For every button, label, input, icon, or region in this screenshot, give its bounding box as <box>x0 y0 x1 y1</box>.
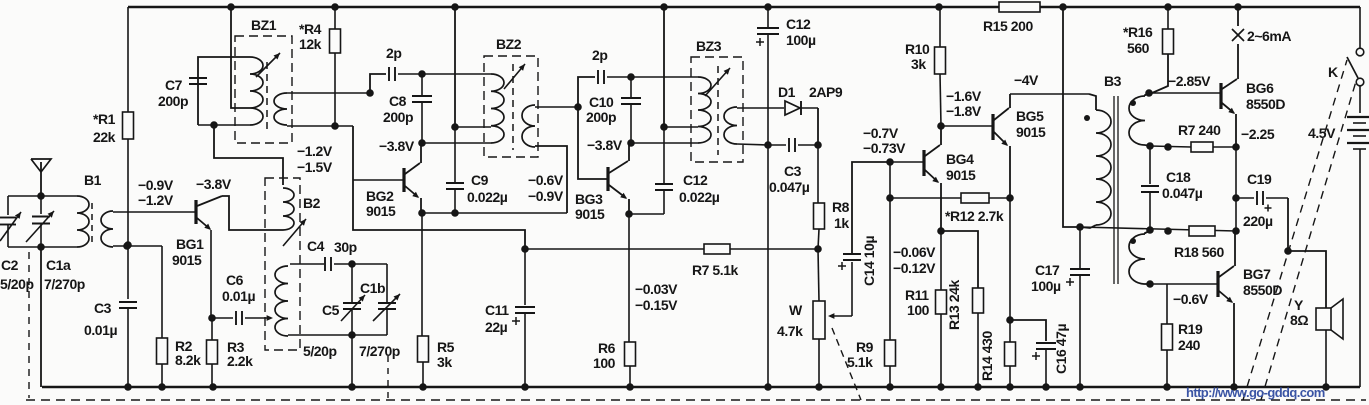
BZ3 slug arrow <box>705 68 730 96</box>
svg-text:C16 47µ: C16 47µ <box>1053 324 1069 374</box>
svg-text:30p: 30p <box>334 239 357 255</box>
capacitor C9 0.022u <box>454 127 456 183</box>
node <box>37 243 45 251</box>
transformer B2 box <box>265 178 300 350</box>
wire rail feed <box>663 7 665 127</box>
capacitor C14 10u electrolytic <box>851 262 853 316</box>
svg-text:200p: 200p <box>383 109 413 125</box>
svg-text:C11: C11 <box>485 302 509 318</box>
node emitter <box>937 227 945 235</box>
capacitor C6 0.01u <box>212 317 233 319</box>
node <box>814 245 822 253</box>
svg-text:C14 10µ: C14 10µ <box>861 236 877 286</box>
transformer BZ3 secondary <box>724 107 737 144</box>
wire tap <box>455 126 491 128</box>
svg-text:BG4: BG4 <box>946 151 974 167</box>
resistor R11 100 <box>940 231 942 290</box>
bottom dashed border <box>26 399 1366 401</box>
wire rail feed <box>454 7 456 127</box>
top supply rail <box>128 6 1360 8</box>
svg-text:B2: B2 <box>303 195 321 211</box>
svg-text:R13 24k: R13 24k <box>946 280 962 330</box>
battery 4.5V <box>1359 86 1361 113</box>
wire collector <box>222 196 283 230</box>
BZ1 slug arrow <box>256 53 280 77</box>
svg-text:B3: B3 <box>1104 73 1122 89</box>
svg-text:C10: C10 <box>589 94 614 110</box>
wire <box>422 73 491 75</box>
switch dashed link <box>1243 60 1347 400</box>
node emitter <box>208 314 216 322</box>
svg-text:−2.25: −2.25 <box>1241 126 1275 142</box>
node <box>451 209 459 217</box>
node <box>210 121 218 129</box>
svg-text:3k: 3k <box>911 56 926 72</box>
wire secondary top <box>535 106 578 108</box>
capacitor C10 200p <box>630 77 632 98</box>
node <box>37 192 45 200</box>
svg-text:12k: 12k <box>299 36 322 52</box>
transformer BZ2 secondary <box>522 105 535 147</box>
svg-text:C17: C17 <box>1035 262 1060 278</box>
potentiometer W 4.7k <box>818 249 819 301</box>
node <box>1146 280 1154 288</box>
transformer BZ1 primary <box>250 57 263 125</box>
svg-text:C5: C5 <box>322 302 340 318</box>
wire <box>352 263 387 265</box>
svg-text:D1: D1 <box>778 84 796 100</box>
svg-text:R15 200: R15 200 <box>983 18 1033 34</box>
wire <box>127 7 129 112</box>
node <box>521 245 529 253</box>
wire secondary bottom <box>287 125 353 127</box>
svg-text:C2: C2 <box>1 257 19 273</box>
svg-text:2.2k: 2.2k <box>227 353 253 369</box>
node rail <box>227 3 235 11</box>
svg-text:7/270p: 7/270p <box>359 343 400 359</box>
svg-text:R5: R5 <box>437 339 455 355</box>
wire tank top <box>8 195 77 197</box>
wire collector to primary <box>631 142 698 144</box>
diode D1 2AP9 <box>785 101 800 115</box>
node <box>418 70 426 78</box>
transformer BZ1 core <box>266 62 268 132</box>
svg-text:100: 100 <box>907 302 930 318</box>
node collector <box>937 122 945 130</box>
wire secondary bottom <box>535 146 567 213</box>
wire <box>127 139 129 299</box>
svg-text:0.01µ: 0.01µ <box>222 288 255 304</box>
svg-text:R11: R11 <box>905 287 929 303</box>
resistor R18 560 <box>1164 227 1172 235</box>
resistor R6 100 <box>628 214 630 342</box>
wire base tap <box>353 179 404 181</box>
transistor BG7 8550D <box>1216 271 1219 297</box>
resistor R2 8.2k <box>157 338 168 364</box>
node emitter BG6 <box>1232 143 1240 151</box>
svg-text:200p: 200p <box>158 93 188 109</box>
svg-text:*R1: *R1 <box>93 111 116 127</box>
wire tank bottom <box>8 246 77 248</box>
wire rail feed <box>1063 7 1080 227</box>
svg-text:C8: C8 <box>389 93 407 109</box>
svg-text:0.022µ: 0.022µ <box>679 189 720 205</box>
wire rail feed <box>231 7 250 108</box>
svg-text:−0.15V: −0.15V <box>635 297 678 313</box>
wire to ground <box>40 247 42 387</box>
svg-text:C12: C12 <box>683 172 708 188</box>
wire base BG6 <box>1149 92 1221 94</box>
svg-text:B1: B1 <box>84 172 102 188</box>
node <box>1145 89 1153 97</box>
junction <box>124 383 132 391</box>
capacitor C11 22u electrolytic <box>524 249 526 305</box>
svg-text:560: 560 <box>1127 40 1150 56</box>
node emitter <box>1006 194 1014 202</box>
svg-text:200p: 200p <box>586 109 616 125</box>
svg-text:9015: 9015 <box>1016 124 1046 140</box>
phase dot <box>1130 100 1136 106</box>
wire <box>817 108 819 145</box>
wire <box>351 335 353 387</box>
svg-text:BZ2: BZ2 <box>496 36 522 52</box>
variable capacitor C1a 7/270p <box>40 196 42 214</box>
node <box>348 331 356 339</box>
wire <box>288 334 387 336</box>
svg-text:C7: C7 <box>165 77 183 93</box>
wire <box>198 124 250 126</box>
capacitor C3 0.047u <box>768 144 786 146</box>
capacitor 2p <box>578 77 595 107</box>
wire <box>127 308 129 387</box>
node <box>451 123 459 131</box>
transformer B1 core <box>91 203 93 243</box>
svg-text:C1b: C1b <box>360 280 385 296</box>
wiper arrow <box>830 315 852 317</box>
resistor R3 2.2k <box>211 318 213 340</box>
wire <box>1287 198 1289 251</box>
resistor R7 5.1k <box>704 244 730 254</box>
BZ2 slug arrow <box>504 64 525 89</box>
B2 slug arrow <box>283 219 306 246</box>
node emitter <box>625 210 633 218</box>
wire output column <box>1235 147 1237 231</box>
switch K <box>1359 7 1361 48</box>
capacitor C4 30p <box>324 257 326 271</box>
svg-text:9015: 9015 <box>172 252 202 268</box>
svg-text:8.2k: 8.2k <box>175 352 201 368</box>
gang dashed link <box>387 356 389 398</box>
svg-text:R9: R9 <box>856 339 874 355</box>
svg-text:C9: C9 <box>471 172 489 188</box>
node <box>660 123 668 131</box>
transformer BZ1 secondary <box>274 93 287 125</box>
svg-text:3k: 3k <box>437 354 452 370</box>
trimmer C2 5/20p <box>7 196 9 215</box>
resistor R4 12k <box>331 3 339 11</box>
resistor R16 560 <box>1164 3 1172 11</box>
svg-text:4.7k: 4.7k <box>777 323 803 339</box>
svg-text:−1.6V: −1.6V <box>946 88 982 104</box>
svg-text:BG6: BG6 <box>1246 80 1274 96</box>
capacitor C19 220u electrolytic <box>1236 197 1254 199</box>
node collector BG2 <box>418 139 426 147</box>
svg-text:C3: C3 <box>94 300 112 316</box>
phase dot <box>1130 238 1136 244</box>
transformer B1 primary <box>77 196 89 247</box>
svg-text:−0.6V: −0.6V <box>1173 291 1209 307</box>
node collector BG3 <box>627 139 635 147</box>
node rail <box>660 3 668 11</box>
svg-text:−3.8V: −3.8V <box>196 176 232 192</box>
ground rail <box>42 386 1360 388</box>
svg-text:Y: Y <box>1294 297 1304 313</box>
capacitor C12 100u electrolytic <box>764 3 772 11</box>
wire <box>1009 198 1011 320</box>
transformer B3 secondary top <box>1145 93 1149 96</box>
wire base BG7 <box>1150 283 1218 285</box>
svg-text:−0.06V: −0.06V <box>893 244 936 260</box>
capacitor C7 200p <box>198 57 250 84</box>
svg-text:0.022µ: 0.022µ <box>467 189 508 205</box>
node base-bias junction <box>124 241 132 249</box>
svg-text:0.01µ: 0.01µ <box>84 322 117 338</box>
svg-text:−0.9V: −0.9V <box>138 177 174 193</box>
trimmer C5 5/20p <box>351 264 353 302</box>
transistor BG6 8550D <box>1219 83 1222 109</box>
transformer BZ3 primary <box>698 77 711 143</box>
svg-text:−3.8V: −3.8V <box>587 137 623 153</box>
wire emitter <box>210 230 212 318</box>
svg-text:R19: R19 <box>1178 321 1203 337</box>
svg-text:4.5V: 4.5V <box>1308 125 1336 141</box>
svg-text:−0.6V: −0.6V <box>528 172 564 188</box>
transformer BZ3 box <box>691 57 743 162</box>
capacitor C18 0.047u <box>1149 146 1151 184</box>
resistor R1 <box>123 112 134 139</box>
node <box>627 73 635 81</box>
svg-text:C6: C6 <box>226 272 244 288</box>
svg-text:0.047µ: 0.047µ <box>769 179 810 195</box>
svg-text:−4V: −4V <box>1014 72 1039 88</box>
capacitor C12 0.022u <box>663 127 665 184</box>
wire mid rail <box>1080 227 1236 231</box>
svg-text:8Ω: 8Ω <box>1290 312 1308 328</box>
wire base <box>113 211 196 213</box>
svg-text:−0.12V: −0.12V <box>893 260 936 276</box>
wire AGC/base branch <box>353 126 525 249</box>
node <box>886 194 894 202</box>
svg-text:100µ: 100µ <box>786 32 816 48</box>
svg-text:9015: 9015 <box>575 206 605 222</box>
wiper dashed link <box>832 328 861 400</box>
node <box>814 141 822 149</box>
variable capacitor C1b 7/270p <box>378 302 396 304</box>
capacitor C17 100u electrolytic <box>1079 227 1081 268</box>
svg-text:C1a: C1a <box>46 257 71 273</box>
transformer B2 tank winding <box>275 266 288 336</box>
node <box>1006 316 1014 324</box>
wire C4 lead <box>290 263 324 265</box>
svg-text:−0.7V: −0.7V <box>863 125 899 141</box>
transformer B3 primary <box>1089 94 1096 110</box>
resistor R8 1k <box>817 145 819 203</box>
svg-text:−0.73V: −0.73V <box>863 140 906 156</box>
svg-text:−0.03V: −0.03V <box>635 281 678 297</box>
svg-text:W: W <box>789 302 803 318</box>
svg-text:2~6mA: 2~6mA <box>1247 28 1291 44</box>
capacitor C8 200p <box>421 74 423 96</box>
svg-text:5/20p: 5/20p <box>303 343 337 359</box>
node <box>1146 226 1154 234</box>
wire BZ1 to B2 <box>214 125 283 185</box>
transformer BZ2 primary <box>491 74 504 143</box>
svg-text:−1.2V: −1.2V <box>297 143 333 159</box>
node emitter <box>418 209 426 217</box>
node <box>331 122 339 130</box>
wire <box>629 213 664 215</box>
svg-text:100µ: 100µ <box>1031 278 1061 294</box>
svg-text:http://www.go-gddq.com: http://www.go-gddq.com <box>1186 385 1325 400</box>
node <box>764 141 772 149</box>
node <box>1146 142 1154 150</box>
resistor R14 430 <box>1009 320 1011 342</box>
svg-text:2p: 2p <box>592 47 607 63</box>
svg-text:7/270p: 7/270p <box>44 276 85 292</box>
svg-text:1k: 1k <box>834 215 849 231</box>
transistor BG1 9015 <box>194 200 197 224</box>
node <box>574 103 582 111</box>
node <box>1076 223 1084 231</box>
node <box>1232 194 1240 202</box>
transistor BG3 9015 <box>606 167 609 191</box>
wire collector to primary <box>422 142 491 144</box>
svg-text:C4: C4 <box>307 238 325 254</box>
svg-text:−3.8V: −3.8V <box>379 138 415 154</box>
speaker Y 8ohm <box>1316 308 1331 330</box>
svg-text:R8: R8 <box>832 199 850 215</box>
node <box>366 89 374 97</box>
svg-text:−2.85V: −2.85V <box>1168 73 1211 89</box>
resistor R9 5.1k <box>889 162 891 340</box>
svg-text:BZ3: BZ3 <box>696 38 722 54</box>
meter break 2~6mA <box>1232 29 1244 41</box>
svg-text:0.047µ: 0.047µ <box>1162 185 1203 201</box>
svg-text:22µ: 22µ <box>485 319 508 335</box>
node <box>123 242 131 250</box>
svg-text:BZ1: BZ1 <box>251 17 277 33</box>
resistor R5 3k <box>421 213 423 336</box>
transformer B3 secondary bottom <box>1145 231 1150 234</box>
wire base branch <box>578 107 608 179</box>
svg-text:BG7: BG7 <box>1243 266 1271 282</box>
node <box>1164 143 1172 151</box>
svg-text:BG1: BG1 <box>176 236 204 252</box>
transformer BZ2 box <box>484 56 538 157</box>
resistor R7 240 <box>1150 146 1191 147</box>
transistor BG2 9015 <box>402 168 405 192</box>
svg-text:BG2: BG2 <box>366 188 394 204</box>
wire tap <box>664 126 698 128</box>
transformer B1 secondary <box>101 211 113 247</box>
svg-text:R10: R10 <box>905 41 930 57</box>
phase dot <box>1084 115 1090 121</box>
transformer B2 feedback winding <box>283 188 294 230</box>
resistor R10 3k <box>935 3 943 11</box>
svg-text:2p: 2p <box>386 45 401 61</box>
svg-text:*R16: *R16 <box>1123 24 1153 40</box>
wire secondary top <box>287 92 370 94</box>
wire secondary top to detector <box>737 107 784 109</box>
transformer BZ3 core <box>717 66 719 155</box>
wire <box>161 246 163 338</box>
svg-text:BG5: BG5 <box>1016 108 1044 124</box>
capacitor C3 0.01u <box>119 301 137 303</box>
svg-text:*R12 2.7k: *R12 2.7k <box>945 208 1004 224</box>
resistor R19 240 <box>1166 284 1168 324</box>
node <box>348 260 356 268</box>
svg-text:8550D: 8550D <box>1246 96 1285 112</box>
switch dashed link 2 <box>1261 78 1357 400</box>
resistor R15 200 <box>999 2 1040 12</box>
svg-text:−1.8V: −1.8V <box>946 103 982 119</box>
svg-text:22k: 22k <box>93 129 116 145</box>
svg-text:R18 560: R18 560 <box>1174 244 1224 260</box>
capacitor C16 47u electrolytic <box>1010 320 1046 341</box>
wire AGC <box>525 248 704 250</box>
svg-text:240: 240 <box>1178 337 1201 353</box>
wire secondary bottom <box>737 144 768 145</box>
node base BG4 <box>886 158 894 166</box>
wire <box>631 76 698 78</box>
transformer B3 core <box>1113 96 1115 284</box>
svg-text:9015: 9015 <box>946 167 976 183</box>
resistor R13 24k <box>941 231 978 288</box>
wire collector to B3 <box>1010 93 1089 95</box>
wire to ground <box>767 145 769 387</box>
svg-text:R14 430: R14 430 <box>979 331 995 381</box>
svg-text:C12: C12 <box>786 16 811 32</box>
svg-text:*R4: *R4 <box>299 21 322 37</box>
transistor BG4 9015 <box>922 150 925 176</box>
svg-text:C18: C18 <box>1166 169 1191 185</box>
gang dashed link <box>28 252 30 398</box>
node rail <box>451 3 459 11</box>
wire <box>113 245 162 247</box>
svg-text:K: K <box>1328 64 1338 80</box>
svg-text:C3: C3 <box>784 163 802 179</box>
svg-text:9015: 9015 <box>366 203 396 219</box>
transformer BZ2 core <box>512 64 514 150</box>
capacitor 2p <box>370 74 386 93</box>
node rail <box>1059 3 1067 11</box>
svg-text:R7 240: R7 240 <box>1178 122 1221 138</box>
svg-text:−0.9V: −0.9V <box>528 188 564 204</box>
svg-text:R6: R6 <box>598 340 616 356</box>
svg-text:220µ: 220µ <box>1243 213 1273 229</box>
transformer BZ1 box <box>235 36 292 143</box>
svg-text:5.1k: 5.1k <box>847 354 873 370</box>
antenna <box>31 159 51 172</box>
resistor R12 2.7k <box>890 197 961 199</box>
svg-text:2AP9: 2AP9 <box>809 84 843 100</box>
svg-text:R7 5.1k: R7 5.1k <box>692 262 739 278</box>
wire emitter line <box>422 212 567 214</box>
svg-text:−1.2V: −1.2V <box>138 192 174 208</box>
svg-text:C19: C19 <box>1247 171 1272 187</box>
svg-text:100: 100 <box>593 355 616 371</box>
svg-text:BG3: BG3 <box>575 191 603 207</box>
